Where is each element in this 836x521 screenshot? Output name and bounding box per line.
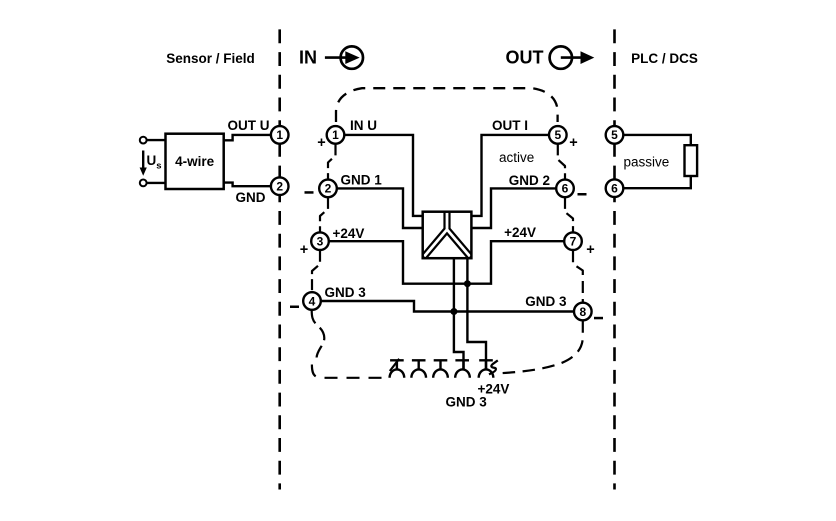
svg-text:OUT: OUT [506, 48, 544, 68]
svg-text:+: + [586, 242, 594, 258]
svg-text:2: 2 [276, 180, 283, 194]
wire IN U terminal 1 to isolator [344, 135, 422, 216]
minus sign terminal 4 [290, 306, 299, 309]
svg-text:GND 1: GND 1 [341, 173, 383, 188]
svg-text:active: active [499, 150, 534, 165]
svg-text:GND 3: GND 3 [525, 294, 567, 309]
wire GND from 4-wire box to terminal 2 [224, 183, 272, 187]
svg-text:8: 8 [579, 305, 586, 319]
dashed outline below terminal 8 to bottom [500, 320, 583, 373]
junction dot GND 3 [450, 308, 457, 315]
IN arrow icon [325, 46, 363, 68]
svg-text:+24V: +24V [504, 225, 536, 240]
svg-text:6: 6 [562, 182, 569, 196]
wire isolator bottom GND 3 to bus contact [454, 258, 464, 369]
minus sign terminal 2 [305, 191, 314, 194]
Us arrow down [140, 151, 147, 176]
wire +24V terminal 3 to terminal 7 [329, 241, 564, 284]
dashed device outline top [336, 88, 558, 122]
svg-text:5: 5 [554, 128, 561, 142]
dashed separator line Sensor/Field vs IN [278, 29, 281, 489]
bus contact 1 [390, 360, 405, 377]
wire GND 1 terminal 2 to isolator [337, 188, 423, 228]
wire load resistor to PLC terminal 6 [623, 176, 691, 188]
dashed outline squiggle below terminal 4 [312, 310, 325, 357]
svg-text:Sensor / Field: Sensor / Field [166, 51, 255, 66]
OUT arrow icon [550, 46, 595, 68]
svg-text:GND 3: GND 3 [446, 395, 488, 410]
dashed outline squiggle terminal 2 to 3 [320, 198, 328, 233]
source terminal open circle top [140, 137, 147, 144]
device output terminal 6 [556, 180, 574, 198]
field-side terminal 2 [271, 177, 289, 195]
wire OUT I isolator to terminal 5 [471, 135, 549, 216]
svg-text:6: 6 [611, 182, 618, 196]
device output terminal 8 [574, 303, 592, 321]
isolator U1 box [423, 212, 472, 259]
dashed outline squiggle terminal 3 to 4 [312, 251, 320, 293]
dashed outline squiggle terminal 7 to 8 [573, 250, 583, 302]
bus contact 5 [479, 360, 494, 377]
svg-text:1: 1 [276, 128, 283, 142]
device input terminal 3 [311, 232, 329, 250]
wire PLC terminal 5 to load resistor [623, 135, 691, 145]
svg-text:+: + [300, 242, 308, 258]
wire OUT U from 4-wire box to terminal 1 [224, 135, 272, 140]
device input terminal 4 [303, 292, 321, 310]
wire source bottom to 4-wire box [147, 182, 166, 184]
svg-text:OUT I: OUT I [492, 118, 528, 133]
wire isolator bottom +24V to bus contact [467, 258, 486, 369]
svg-text:GND 2: GND 2 [509, 173, 550, 188]
svg-text:OUT U: OUT U [228, 118, 270, 133]
svg-text:passive: passive [624, 155, 670, 170]
dashed outline bottom-left corner [312, 365, 387, 378]
svg-text:IN U: IN U [350, 118, 377, 133]
dashed outline squiggle terminal 5 to 6 [558, 144, 565, 179]
bus contact 4 [455, 360, 470, 377]
minus sign terminal 6 [578, 193, 587, 196]
wire GND 2 isolator to terminal 6 [471, 188, 556, 228]
svg-text:1: 1 [332, 128, 339, 142]
dashed outline squiggle terminal 6 to 7 [565, 198, 573, 233]
bus contact 2 [411, 360, 426, 377]
device input terminal 2 [319, 180, 337, 198]
svg-text:GND 3: GND 3 [325, 285, 367, 300]
source terminal open circle bottom [140, 180, 147, 187]
svg-text:Us: Us [147, 153, 162, 172]
svg-text:2: 2 [325, 182, 332, 196]
sensor box 4-wire [166, 134, 224, 189]
svg-text:GND: GND [236, 190, 266, 205]
svg-text:3: 3 [317, 235, 324, 249]
dashed outline squiggle terminal 1 to 2 [328, 144, 336, 179]
svg-text:IN: IN [299, 48, 317, 68]
device output terminal 7 [564, 232, 582, 250]
field-side terminal 1 [271, 126, 289, 144]
svg-text:7: 7 [570, 235, 577, 249]
minus sign terminal 8 [594, 317, 603, 320]
device output terminal 5 [549, 126, 567, 144]
boundary squiggle through bus contact 5 [489, 360, 498, 374]
svg-text:5: 5 [611, 128, 618, 142]
device input terminal 1 [327, 126, 345, 144]
boundary slash through bus contact 1 [390, 359, 399, 371]
junction dot +24V [464, 280, 471, 287]
load resistor [685, 145, 698, 176]
bus contact 3 [433, 360, 448, 377]
PLC terminal 5 [606, 126, 624, 144]
wire source top to 4-wire box [147, 139, 166, 141]
PLC terminal 6 [606, 179, 624, 197]
svg-text:+: + [569, 135, 577, 151]
svg-text:+24V: +24V [333, 226, 365, 241]
dashed separator line OUT vs PLC/DCS [613, 29, 616, 489]
svg-text:4: 4 [309, 294, 316, 308]
svg-text:PLC / DCS: PLC / DCS [631, 51, 698, 66]
svg-text:4-wire: 4-wire [175, 154, 215, 169]
wire GND 3 terminal 4 to terminal 8 [321, 301, 574, 312]
svg-text:+: + [317, 135, 325, 151]
